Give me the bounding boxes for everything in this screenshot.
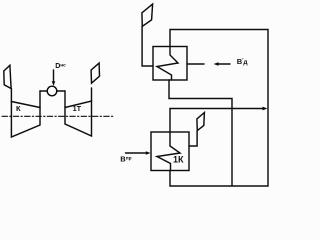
wire turbine exhaust duct line xyxy=(91,88,93,101)
wire bridge left horizontal xyxy=(40,90,47,92)
turbine 1T body xyxy=(65,101,92,136)
svg-text:К: К xyxy=(16,104,21,113)
combustion chamber circle xyxy=(47,86,57,96)
pipe from 1K box top with arrow into right riser xyxy=(170,109,264,133)
heat exchanger zigzag (1K box) xyxy=(157,132,180,171)
svg-text:В′д: В′д xyxy=(237,57,248,66)
pipe loop: top box top, up, right, down, bottom, up to 1K box xyxy=(170,30,268,187)
wire turbine inlet downcomer xyxy=(64,91,66,108)
pipe from top box bottom to bottom line xyxy=(169,80,232,186)
flag duct (right of 1K box) xyxy=(197,113,205,131)
flow arrow Bpr into 1K box xyxy=(126,152,148,154)
wire compressor inlet duct line xyxy=(10,89,12,102)
wire bridge right horizontal xyxy=(57,90,65,92)
heat exchanger zigzag (top box) xyxy=(157,47,178,81)
svg-text:1К: 1К xyxy=(173,155,184,165)
heat exchanger box (top) xyxy=(153,47,187,81)
top flag duct (upper right diagram) xyxy=(142,4,153,26)
svg-text:1Т: 1Т xyxy=(73,106,82,113)
wire right stub of top heat exchanger xyxy=(187,63,204,65)
compressor K body xyxy=(11,102,40,138)
heat exchanger box 1K (bottom) xyxy=(151,132,189,171)
wire compressor outlet riser xyxy=(39,91,41,108)
fuel arrow Dnc into combustion chamber xyxy=(53,70,55,82)
intake duct flag (left of compressor) xyxy=(4,65,11,88)
flow arrow B'd pointing left xyxy=(218,63,231,65)
svg-text:Впр: Впр xyxy=(120,155,131,164)
exhaust duct flag (right of turbine) xyxy=(91,63,99,83)
shaft centerline dash-dot xyxy=(2,115,113,117)
wire flag to 1K box right port xyxy=(189,131,197,146)
wire flag to heat exchanger left port xyxy=(142,26,153,66)
svg-text:Dнс: Dнс xyxy=(55,63,66,70)
